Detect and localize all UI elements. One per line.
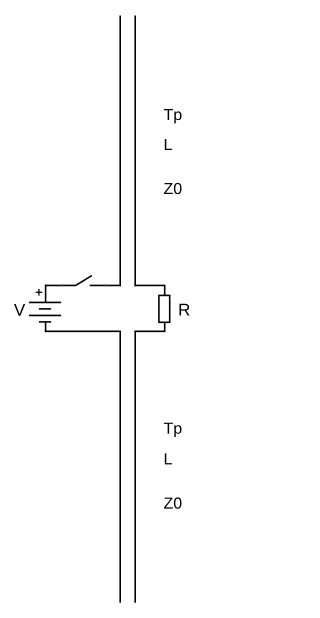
voltage source V plate 4 (short, -) xyxy=(39,321,51,323)
label L (upper line length) xyxy=(165,139,172,150)
transmission line TL1 left conductor xyxy=(119,16,121,287)
transmission line TL2 left conductor xyxy=(119,331,121,603)
transmission line TL2 right conductor xyxy=(134,331,136,603)
voltage source V plate 1 (long, +) xyxy=(29,301,61,303)
label V (source voltage) xyxy=(14,304,25,316)
voltage source V plate 3 (long, +) xyxy=(29,314,61,316)
resistor R body xyxy=(159,295,170,322)
switch S1 pin tick left xyxy=(61,284,63,287)
label Tp (upper line delay) xyxy=(164,109,182,123)
wire: TL1 right conductor to resistor top xyxy=(134,285,164,295)
wire: resistor bottom to TL2 right conductor xyxy=(134,322,164,331)
label R (load resistor) xyxy=(179,304,189,316)
transmission line TL1 right conductor xyxy=(134,16,136,287)
wire: bottom horizontal from battery to TL2 left conductor xyxy=(45,330,121,332)
voltage source V positive terminal stub xyxy=(45,285,47,303)
label L (lower line length) xyxy=(165,453,172,464)
voltage source V plate 2 (short, -) xyxy=(39,308,51,310)
voltage source V polarity plus sign xyxy=(36,289,43,296)
label Tp (lower line delay) xyxy=(164,423,182,437)
voltage source V negative terminal stub xyxy=(45,322,47,332)
switch S1 pin tick right xyxy=(105,284,107,287)
wire: switch right contact to TL1 left conductor xyxy=(90,284,121,286)
wire: top-left horizontal from battery to switch pivot xyxy=(45,284,76,286)
label Z0 (upper line impedance) xyxy=(164,183,182,194)
label Z0 (lower line impedance) xyxy=(164,497,182,508)
switch S1 blade (open) xyxy=(76,276,92,286)
